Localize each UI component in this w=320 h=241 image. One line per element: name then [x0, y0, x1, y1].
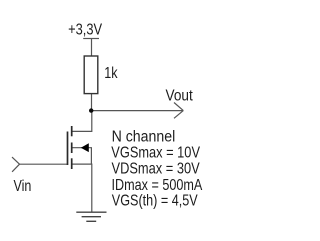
svg-text:+3,3V: +3,3V [68, 21, 103, 38]
svg-text:Vin: Vin [14, 177, 32, 194]
svg-text:VDSmax = 30V: VDSmax = 30V [112, 160, 201, 177]
svg-text:VGSmax = 10V: VGSmax = 10V [111, 144, 200, 161]
svg-text:1k: 1k [104, 64, 118, 81]
svg-text:VGS(th) = 4,5V: VGS(th) = 4,5V [112, 191, 198, 208]
svg-text:Vout: Vout [166, 88, 193, 105]
